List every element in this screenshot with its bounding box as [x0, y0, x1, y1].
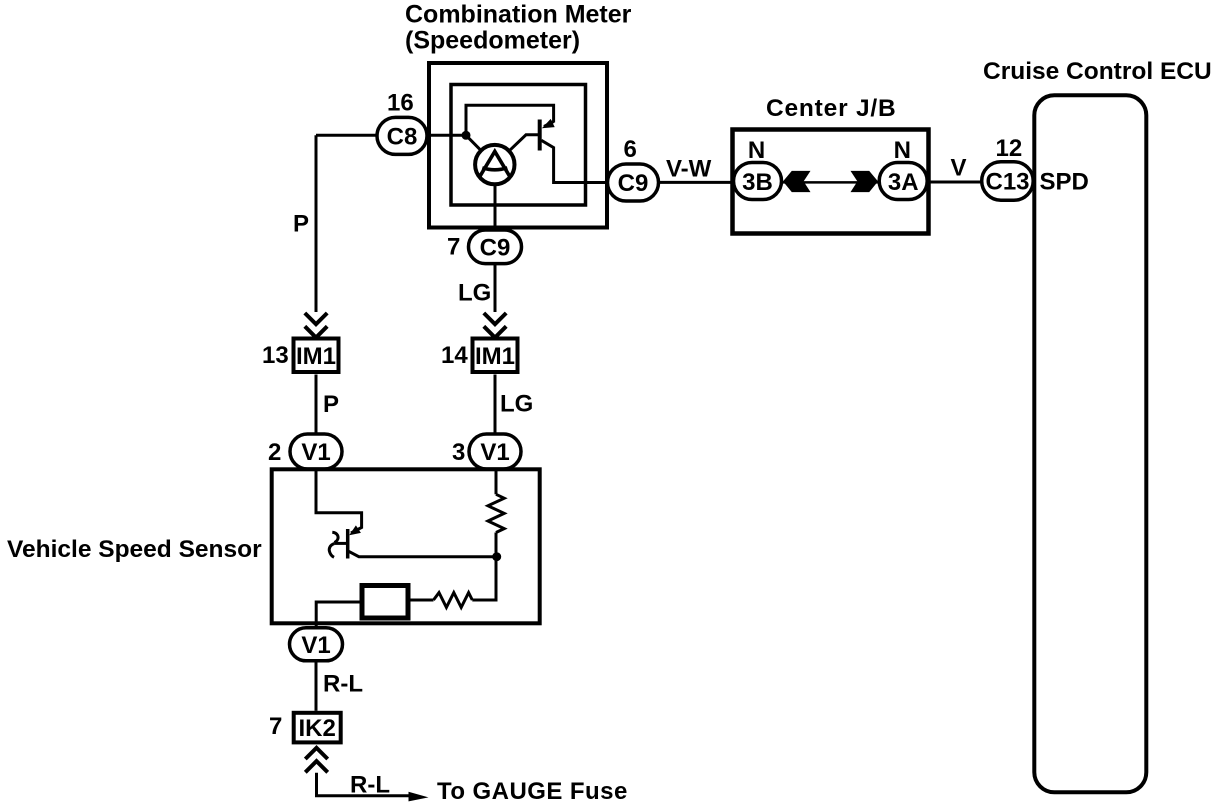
svg-text:R-L: R-L [350, 772, 390, 799]
vehicle speed sensor box [272, 469, 540, 623]
svg-text:Center J/B: Center J/B [766, 95, 897, 122]
svg-text:6: 6 [624, 136, 637, 163]
wire V1 pin2 into sensor to transistor collector [316, 469, 362, 533]
svg-text:Combination Meter: Combination Meter [405, 1, 632, 29]
svg-text:C9: C9 [618, 170, 649, 197]
wire resistor to junction and down [472, 533, 496, 601]
svg-text:13: 13 [262, 342, 289, 369]
wire to GAUGE fuse [317, 773, 409, 796]
transistor Q1 base bar [538, 120, 542, 151]
svg-text:C13: C13 [985, 169, 1029, 196]
wire V to ECU [927, 181, 982, 184]
wire IM1 to V1 pin3 [494, 375, 497, 435]
resistor R1 vertical [488, 494, 504, 532]
svg-text:14: 14 [441, 342, 468, 369]
wire C8 left to P column [316, 134, 377, 137]
sensor element box [362, 586, 408, 619]
svg-text:V1: V1 [301, 439, 330, 466]
wire C8 to junction [427, 134, 467, 137]
wire V1 pin3 into sensor [495, 469, 498, 494]
arrow to GAUGE fuse [409, 792, 429, 802]
center J/B box [733, 130, 929, 234]
arrow left chevron toward 3B [783, 171, 811, 192]
svg-text:N: N [748, 137, 765, 164]
connector C8 [377, 117, 427, 154]
svg-text:Vehicle Speed Sensor: Vehicle Speed Sensor [7, 536, 262, 563]
svg-text:V-W: V-W [666, 156, 712, 183]
wire IM1 to V1 pin2 [315, 375, 318, 435]
connector C13 [982, 162, 1033, 200]
arrow double chevron down to IM1 14 [484, 313, 506, 338]
wire V-W [659, 181, 734, 184]
wire junction up and over to transistor collector [466, 105, 554, 135]
connector C9 pin6 [608, 164, 659, 201]
connector IM1 pin 13 [294, 339, 339, 373]
svg-text:P: P [293, 211, 309, 238]
svg-text:7: 7 [269, 713, 282, 740]
wire sensor element to V1 bottom [316, 602, 359, 628]
speedometer inner box [451, 85, 586, 206]
svg-text:(Speedometer): (Speedometer) [405, 27, 580, 55]
svg-text:3A: 3A [888, 169, 919, 196]
transistor Q1 collector lead with arrow [544, 122, 554, 127]
svg-text:IK2: IK2 [299, 715, 336, 742]
connector C9 pin7 [469, 230, 522, 264]
svg-text:3B: 3B [742, 169, 773, 196]
svg-text:7: 7 [447, 234, 460, 261]
svg-text:12: 12 [996, 135, 1023, 162]
node junction dot [492, 552, 501, 561]
wire LG vertical [494, 264, 497, 312]
transistor Q1 emitter lead [541, 140, 607, 182]
meter M1 speedometer symbol [475, 145, 514, 184]
pickup coil symbol [332, 532, 338, 542]
wire between 3B and 3A [782, 181, 880, 184]
transistor Q1 base lead [510, 135, 540, 151]
svg-text:16: 16 [387, 90, 414, 117]
svg-text:SPD: SPD [1040, 169, 1089, 196]
svg-text:R-L: R-L [323, 671, 363, 698]
svg-text:3: 3 [452, 439, 465, 466]
arrow right chevron toward 3A [851, 171, 879, 192]
arrow double chevron up to IK2 [305, 748, 327, 773]
svg-text:V: V [951, 155, 967, 182]
wire junction to meter [466, 135, 482, 151]
wire meter to C9 pin7 [494, 184, 497, 230]
svg-text:V1: V1 [301, 632, 330, 659]
svg-text:V1: V1 [480, 439, 509, 466]
cruise control ECU box [1034, 95, 1146, 792]
connector IK2 pin 7 [294, 713, 341, 743]
svg-text:P: P [323, 391, 339, 418]
transistor Q2 base bar [346, 529, 350, 559]
connector 3A [879, 163, 927, 200]
svg-text:LG: LG [458, 280, 491, 307]
transistor Q2 emitter lead to junction [348, 551, 497, 557]
svg-text:2: 2 [268, 439, 281, 466]
arrow double chevron down to IM1 13 [305, 313, 327, 338]
resistor R2 horizontal [434, 593, 473, 608]
wire resistor to sensor element [411, 599, 434, 602]
svg-text:IM1: IM1 [296, 343, 336, 370]
svg-text:N: N [894, 137, 911, 164]
svg-text:IM1: IM1 [475, 343, 515, 370]
connector V1 pin2 [290, 434, 342, 469]
svg-text:To GAUGE Fuse: To GAUGE Fuse [437, 778, 628, 805]
connector V1 pin3 [469, 434, 521, 469]
svg-text:LG: LG [500, 391, 533, 418]
svg-text:C9: C9 [480, 234, 511, 261]
connector V1 bottom [290, 628, 343, 661]
combination meter outer box [429, 63, 607, 228]
wire R-L vertical [315, 661, 318, 711]
svg-text:C8: C8 [387, 123, 418, 150]
transistor Q2 base lead [335, 542, 348, 545]
connector 3B [734, 163, 782, 200]
node junction dot [462, 131, 471, 140]
wire P vertical [315, 135, 318, 312]
svg-text:Cruise Control ECU: Cruise Control ECU [983, 58, 1212, 85]
connector IM1 pin 14 [473, 339, 518, 373]
